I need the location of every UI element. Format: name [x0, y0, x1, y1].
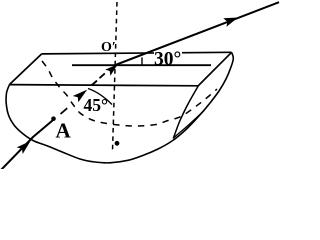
30 degree tick — [141, 57, 143, 65]
centre dot — [115, 141, 120, 146]
refracted ray — [115, 2, 280, 65]
svg-text:O′: O′ — [101, 40, 116, 55]
silhouette overdraw stroke (doubled line) — [174, 111, 204, 138]
surface line through O' — [72, 64, 211, 66]
top face back edge — [42, 52, 232, 54]
svg-text:30°: 30° — [154, 49, 181, 70]
arrowhead at O' — [105, 64, 118, 75]
point A dot — [51, 116, 56, 121]
top face right edge — [199, 52, 232, 85]
top face left edge — [10, 54, 42, 85]
white backing for 30deg label — [154, 51, 182, 63]
arrowhead on incident ray — [17, 141, 31, 154]
svg-text:A: A — [56, 119, 72, 143]
top face front edge — [10, 85, 199, 86]
45 degree angle arc — [88, 89, 112, 105]
dashed base circle (ellipse) — [42, 61, 217, 126]
base-circle rim visible at right — [173, 86, 198, 139]
ray dash before arrowhead — [100, 73, 105, 78]
incident ray outside segment — [0, 118, 55, 171]
hemisphere silhouette — [6, 52, 233, 163]
ray dash crossing front edge — [92, 81, 98, 86]
dashed normal line through O' — [113, 2, 118, 151]
arrowhead near O' — [73, 90, 87, 103]
incident ray dash inside glass — [61, 108, 68, 114]
svg-text:45°: 45° — [84, 95, 109, 115]
arrowhead on refracted ray — [223, 18, 238, 27]
